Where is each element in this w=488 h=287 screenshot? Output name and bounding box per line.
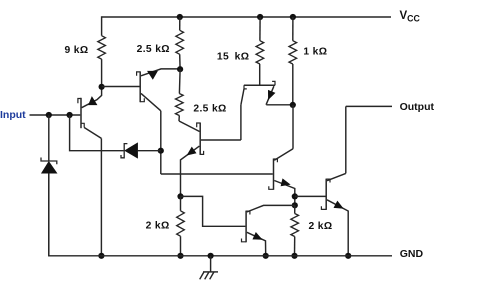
transistor Q7 base bar	[245, 211, 247, 243]
node input-D1 junction	[46, 112, 52, 118]
wire R5 to Q4 collector	[179, 121, 200, 132]
node Q5-Q6 junction	[292, 193, 298, 199]
wire R1 bottom	[101, 59, 103, 87]
wire R7 top lead	[294, 205, 296, 213]
wire GND rail	[49, 173, 392, 256]
svg-text:2.5 kΩ: 2.5 kΩ	[193, 104, 226, 115]
node rail-R2 junction	[177, 14, 183, 20]
transistor Q3 emitter lead	[266, 86, 274, 105]
label Output	[400, 101, 435, 113]
transistor Q1 emitter lead	[82, 87, 102, 108]
wire Q4 base lead	[201, 139, 241, 141]
svg-text:Input: Input	[0, 109, 26, 121]
svg-text:15 kΩ: 15 kΩ	[217, 51, 249, 62]
transistor Q4 emitter arrow	[187, 147, 196, 155]
transistor Q5 base bar	[273, 159, 275, 190]
transistor Q1 base bar	[80, 98, 82, 128]
resistor R7 2k	[291, 214, 299, 237]
wire input to D2	[70, 115, 124, 151]
transistor Q4 bottom schottky hook	[200, 151, 203, 155]
wire R4 top lead	[292, 17, 294, 41]
transistor Q6 emitter lead	[327, 200, 348, 256]
node gnd symbol junction	[208, 253, 214, 259]
transistor Q3 emitter arrow	[268, 90, 275, 99]
wire R3 base lead	[259, 64, 261, 85]
label R5 2.5 kOhm	[193, 104, 226, 115]
label R4 1 kOhm	[303, 47, 327, 58]
wire input lead	[30, 114, 81, 116]
wire D1 top lead	[48, 115, 50, 161]
transistor Q5 top schottky hook	[274, 159, 278, 162]
node R7-gnd junction	[291, 253, 297, 259]
wire Q2 to Q5 base	[161, 173, 273, 175]
svg-text:Output: Output	[400, 101, 435, 113]
label R2 2.5 kOhm	[137, 44, 170, 55]
transistor Q2 base bar	[139, 71, 141, 102]
resistor R3 15k	[256, 41, 264, 64]
wire Q7 collector diagonal	[247, 205, 295, 212]
wire R4 node down	[292, 105, 294, 149]
wire Q3 collector diagonal	[241, 89, 244, 105]
svg-text:2 kΩ: 2 kΩ	[146, 221, 170, 232]
node N1 9k-Q1-Q2 junction	[99, 84, 105, 90]
resistor R2 2.5k upper	[176, 30, 184, 54]
transistor Q4 top schottky hook	[197, 123, 201, 127]
label R6 2 kOhm	[146, 221, 170, 232]
transistor Q6 emitter arrow	[334, 201, 343, 208]
wire Q4 base up	[240, 105, 242, 140]
node Q1-gnd junction	[98, 253, 104, 259]
svg-text:GND: GND	[400, 248, 424, 260]
transistor Q7 top schottky hook	[246, 211, 250, 214]
wire Q5 to Q6 base	[295, 195, 326, 197]
wire Q2 collector down	[160, 111, 162, 174]
label GND	[400, 248, 424, 260]
transistor Q1 collector hook	[81, 123, 84, 127]
ground symbol	[200, 256, 218, 279]
label Vcc	[400, 10, 421, 24]
node Q6-gnd junction	[345, 253, 351, 259]
node R2-R5-Q2 junction	[177, 66, 183, 72]
label R1 9 kOhm	[65, 45, 89, 56]
svg-text:2.5 kΩ: 2.5 kΩ	[137, 44, 170, 55]
transistor Q3 left schottky hook	[244, 85, 247, 89]
diode D2 triangle	[125, 143, 138, 158]
transistor Q7 emitter lead	[247, 232, 266, 256]
transistor Q5 emitter arrow	[281, 179, 290, 186]
wire R2 top lead	[179, 17, 181, 30]
label Input	[0, 109, 26, 121]
transistor Q3 base bar	[244, 84, 275, 86]
diode D2 schottky cathode bar	[121, 144, 127, 158]
wire R5 top lead	[178, 69, 181, 93]
wire Q4 to Q7 base	[181, 196, 246, 226]
wire Q5 collector diagonal	[274, 149, 293, 160]
node Q5-R7 junction	[292, 202, 298, 208]
svg-text:2 kΩ: 2 kΩ	[309, 221, 333, 232]
wire R4 bottom lead	[292, 64, 294, 105]
transistor Q1 emitter arrow	[89, 97, 97, 105]
wire D2 anode lead	[138, 150, 161, 152]
transistor Q4 base bar	[199, 123, 201, 155]
wire Q2 collector diagonal	[141, 93, 161, 110]
transistor Q6 base bar	[325, 179, 327, 210]
wire Q6 collector diagonal	[327, 173, 346, 180]
node rail-R3 junction	[257, 14, 263, 20]
wire Q1 collector diagonal	[84, 128, 101, 139]
wire R5 bottom lead	[178, 116, 180, 122]
svg-text:1 kΩ: 1 kΩ	[303, 47, 327, 58]
transistor Q6 bottom schottky hook	[321, 206, 326, 209]
wire Q3 emitter to R4	[266, 104, 293, 106]
wire Q1 collector down	[100, 138, 102, 255]
label R3 15 kOhm	[217, 51, 249, 62]
label R7 2 kOhm	[309, 221, 333, 232]
transistor Q2 emitter arrow	[148, 71, 158, 79]
node Vcc-R1 corner	[101, 16, 103, 35]
transistor Q6 top schottky hook	[326, 179, 330, 182]
svg-text:9 kΩ: 9 kΩ	[65, 45, 89, 56]
diode D1 triangle	[42, 162, 57, 174]
resistor R5 2.5k lower	[176, 94, 184, 116]
node D2 anode junction	[158, 148, 164, 154]
transistor Q3 right schottky hook	[272, 81, 275, 85]
node rail-R4 junction	[290, 14, 296, 20]
resistor R1 9k	[98, 36, 106, 59]
transistor Q7 bottom schottky hook	[242, 239, 247, 242]
node R6-gnd junction	[177, 253, 183, 259]
resistor R6 2k	[177, 211, 185, 236]
wire Vcc rail	[102, 16, 391, 18]
wire N1 to Q2 base	[102, 86, 140, 88]
wire Q6 collector up	[345, 106, 347, 173]
transistor Q2 top schottky hook	[137, 72, 141, 76]
wire R3 top lead	[259, 17, 261, 41]
wire R6 top lead	[180, 196, 182, 210]
transistor Q7 emitter arrow	[253, 233, 262, 240]
wire R6 bottom lead	[180, 236, 182, 256]
wire R2 bottom lead	[179, 54, 181, 69]
transistor Q2 bottom schottky hook	[140, 98, 144, 102]
node Q4-R6 junction	[177, 193, 183, 199]
diode D1 schottky cathode bar	[41, 158, 57, 165]
transistor Q5 bottom schottky hook	[269, 186, 274, 189]
transistor Q2 emitter lead	[141, 69, 180, 76]
wire R7 bottom lead	[294, 237, 296, 256]
transistor Q5 emitter lead	[274, 181, 295, 206]
node Q7-gnd junction	[263, 253, 269, 259]
transistor Q1 top schottky hook	[78, 99, 81, 104]
node input-D2 junction	[67, 112, 73, 118]
wire output	[346, 105, 392, 107]
node R4-Q3-Q5 junction	[290, 102, 296, 108]
transistor Q4 emitter lead	[181, 146, 200, 196]
wire D1 bottom lead	[48, 173, 50, 256]
resistor R4 1k	[289, 41, 297, 64]
